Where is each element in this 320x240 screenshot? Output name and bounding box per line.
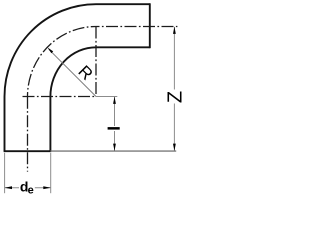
arrow I top <box>113 97 116 104</box>
arrow I bottom <box>113 144 116 151</box>
pipe bottom end face <box>4 150 52 152</box>
pipe outer edge <box>5 4 150 151</box>
arrow de left <box>5 186 12 189</box>
dimension line I <box>114 97 116 151</box>
centerline arc <box>28 27 97 97</box>
arrow Z bottom <box>173 144 176 151</box>
pipe right end face <box>149 3 151 48</box>
arrow de right <box>43 186 50 189</box>
dimension line de <box>5 187 51 189</box>
extension line bottom <box>50 150 176 152</box>
vertical tangent marker <box>95 27 97 97</box>
arrow Z top <box>173 27 176 34</box>
extension line de right <box>50 153 52 193</box>
radius arrowhead <box>47 47 53 53</box>
svg-text:e: e <box>28 185 34 197</box>
extension line I top <box>96 96 117 98</box>
extension line de left <box>4 153 6 193</box>
horizontal tangent marker <box>23 96 97 98</box>
radius line R <box>49 49 96 96</box>
horizontal centerline <box>96 26 177 28</box>
svg-text:Z: Z <box>164 91 185 103</box>
dimension line Z <box>173 27 175 150</box>
pipe inner edge <box>50 47 149 151</box>
label I <box>108 127 120 130</box>
vertical centerline <box>27 97 29 172</box>
svg-text:R: R <box>74 62 96 84</box>
